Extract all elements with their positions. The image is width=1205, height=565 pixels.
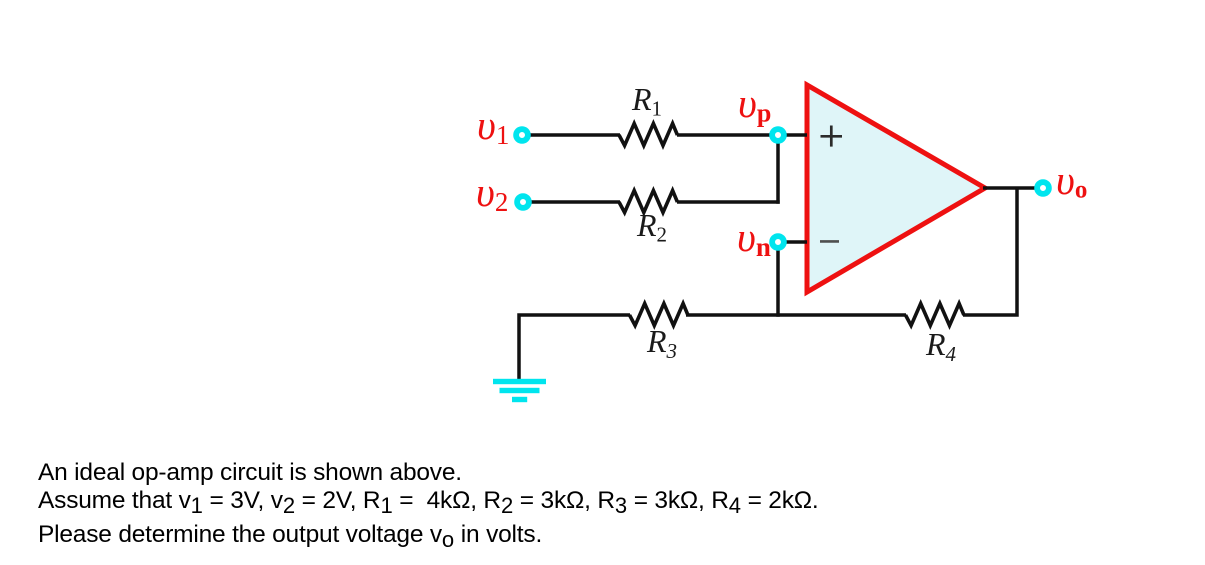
resistor R1 [619,124,677,146]
resistor R2 [619,191,677,213]
wire node vp down to R2 line [776,135,780,204]
resistor R4 [906,304,964,326]
svg-text:R4: R4 [925,326,957,366]
svg-text:υn: υn [737,214,771,262]
terminal v2 [517,196,529,208]
plus input pin symbol [821,126,843,147]
op-amp U1 [807,85,985,292]
terminal vo [1037,182,1049,194]
wire R2 to vp vertical [677,200,780,204]
wire vn to op-amp minus input [778,240,807,244]
svg-text:υ1: υ1 [477,102,509,150]
wire output down to R4 [963,188,1017,315]
wire node vn down to bottom rail [776,242,780,317]
node vn [772,236,784,248]
svg-text:R1: R1 [631,81,662,121]
wire ground up and right to R3 [519,315,630,380]
wire v1 to R1 [527,133,620,137]
resistor R3 [630,304,688,326]
svg-text:υ2: υ2 [476,169,508,217]
wire v2 to R2 [528,200,620,204]
minus input pin symbol [820,240,839,243]
svg-text:υo: υo [1056,157,1087,204]
wire op-amp output to terminal vo [983,186,1035,190]
ground [493,379,546,402]
wire R3 to R4 bottom rail [686,313,906,317]
svg-text:υp: υp [738,80,771,128]
wire R1 to op-amp plus input [677,133,807,137]
svg-text:R3: R3 [646,323,677,363]
terminal v1 [516,129,528,141]
node vp [772,129,784,141]
